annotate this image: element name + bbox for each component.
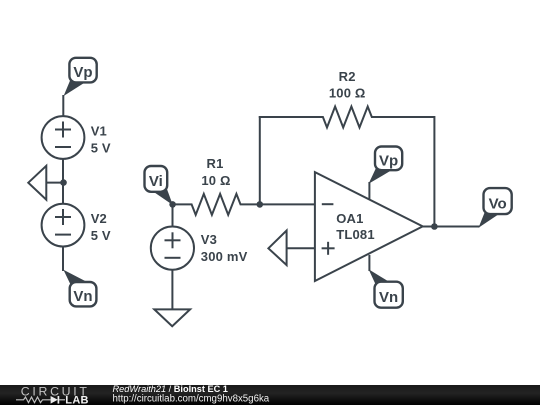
- svg-text:LAB: LAB: [65, 394, 89, 405]
- wire op-amp positive supply pin: [368, 182, 370, 200]
- wire Vi node to V3: [172, 204, 174, 226]
- svg-text:Vi: Vi: [149, 173, 163, 190]
- svg-text:V2: V2: [91, 211, 107, 226]
- svg-text:5 V: 5 V: [91, 228, 111, 243]
- node flag Vp (left supply): [64, 58, 97, 96]
- ground (below V3): [154, 309, 190, 326]
- node flag Vn (op-amp supply): [369, 269, 403, 307]
- wire V2 to Vn: [62, 247, 64, 272]
- node junction Vi: [169, 201, 176, 208]
- svg-text:OA1: OA1: [336, 211, 363, 226]
- svg-text:Vp: Vp: [379, 152, 398, 169]
- voltage source V3: [151, 227, 248, 270]
- svg-text:Vn: Vn: [379, 289, 398, 306]
- svg-text:Vn: Vn: [73, 288, 92, 305]
- node junction output/feedback: [431, 223, 438, 230]
- node flag Vn (left supply): [63, 270, 96, 307]
- svg-text:Vp: Vp: [73, 64, 92, 81]
- svg-text:100 Ω: 100 Ω: [329, 86, 366, 101]
- wire V1 to V2: [62, 159, 64, 204]
- footer credit text: [113, 384, 270, 404]
- voltage source V1: [42, 116, 111, 159]
- svg-text:TL081: TL081: [336, 227, 375, 242]
- svg-text:V3: V3: [201, 232, 217, 247]
- op-amp OA1 TL081: [315, 172, 423, 281]
- svg-text:R2: R2: [339, 69, 356, 84]
- node junction R1/R2/op-amp input: [257, 201, 264, 208]
- svg-text:5 V: 5 V: [91, 140, 111, 155]
- wire op-amp output: [423, 226, 480, 228]
- node flag Vp (op-amp supply): [369, 147, 403, 184]
- svg-text:V1: V1: [91, 124, 107, 139]
- svg-text:300 mV: 300 mV: [201, 249, 248, 264]
- resistor R1 10 Ohm: [173, 156, 260, 215]
- node flag Vi: [145, 166, 173, 205]
- svg-text:http://circuitlab.com/cmg9hv8x: http://circuitlab.com/cmg9hv8x5g6ka: [113, 393, 270, 404]
- CircuitLab logo: [16, 385, 90, 405]
- wire junction to op-amp inverting input: [260, 203, 315, 205]
- resistor R2 100 Ohm: [259, 69, 435, 128]
- node junction between V1 and V2: [60, 179, 67, 186]
- wire Vp to V1: [62, 95, 64, 116]
- svg-text:Vo: Vo: [489, 196, 507, 213]
- node flag Vo: [479, 188, 512, 228]
- voltage source V2: [42, 204, 111, 247]
- wire op-amp negative supply pin: [368, 255, 370, 271]
- ground (rotated) at non-inverting input: [268, 231, 315, 266]
- wire feedback left vertical: [259, 116, 261, 205]
- wire feedback right vertical: [433, 116, 435, 227]
- svg-text:R1: R1: [206, 156, 223, 171]
- ground (rotated) at V1/V2 midpoint: [28, 166, 63, 200]
- svg-text:10 Ω: 10 Ω: [201, 173, 230, 188]
- wire V3 to ground: [171, 270, 173, 310]
